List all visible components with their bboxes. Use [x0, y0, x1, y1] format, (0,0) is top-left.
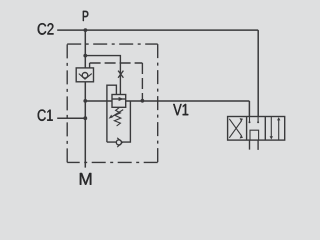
node pilot branch junction — [83, 54, 87, 58]
DV1 centre cell U connection — [250, 130, 259, 140]
node main line junction — [83, 99, 87, 103]
adjustment arrow RV1 — [111, 110, 124, 118]
node P junction — [84, 28, 88, 32]
node C1 junction — [83, 116, 87, 120]
relief valve loop lower with bypass — [107, 101, 130, 142]
label C1 — [38, 110, 53, 121]
enclosure dash-dot box — [67, 44, 158, 162]
enclosure right edge — [157, 44, 159, 162]
node pilot drain junction — [141, 99, 145, 103]
DV1 centre cell blocked port ends — [249, 121, 251, 123]
DV1 cell dividers — [247, 117, 266, 141]
enclosure left edge — [66, 44, 68, 162]
check valve CV1 seat — [79, 74, 92, 80]
wire C2 line — [57, 29, 258, 31]
DV1 left cell crossed arrows — [229, 119, 241, 138]
enclosure bottom edge — [67, 161, 158, 163]
check valve CV2 ball — [116, 140, 121, 145]
label M — [80, 173, 91, 185]
plugged port X — [118, 71, 123, 78]
DV1 right cell up arrow — [278, 120, 280, 140]
label C2 — [38, 23, 54, 35]
wire main line to V1 — [85, 100, 112, 102]
enclosure top edge — [67, 43, 158, 45]
pilot line dashed (CV1 pilot) — [89, 63, 91, 68]
directional valve DV1 body — [228, 117, 285, 141]
DV1 centre cell blocked ports — [250, 117, 259, 123]
wire P/M vertical — [84, 30, 86, 168]
junction dots — [83, 28, 144, 120]
wire C1 line — [57, 117, 85, 119]
relief valve RV1 internal flow arrow — [112, 98, 126, 100]
DV1 right cell down arrow — [270, 117, 272, 137]
label V1 — [173, 104, 188, 115]
DV1 bottom port stubs — [250, 140, 259, 150]
label P — [83, 11, 88, 21]
relief valve loop upper — [107, 85, 117, 142]
wire pilot branch from P — [85, 56, 120, 95]
check valve CV1 body — [76, 68, 93, 82]
relief valve RV1 body — [112, 95, 126, 108]
check valve CV1 ball — [82, 73, 88, 79]
spring RV1 — [114, 107, 120, 126]
wire V1 to valve vertical — [248, 101, 250, 117]
wire C2 to valve vertical — [257, 30, 259, 116]
check valve CV2 seat — [117, 138, 122, 147]
